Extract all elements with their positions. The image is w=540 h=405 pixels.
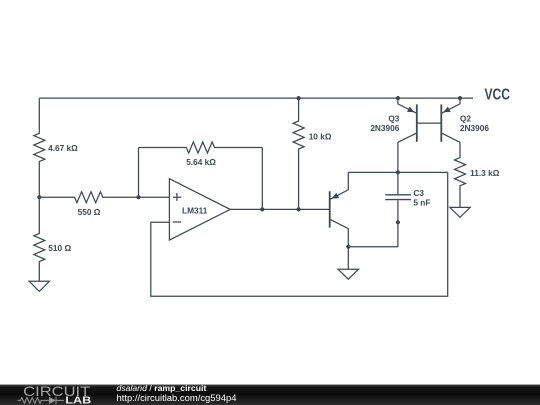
transistor Q1 emitter: [330, 172, 349, 199]
op-amp minus: [173, 221, 182, 223]
resistor R 550: [39, 192, 138, 203]
resistor R 510: [34, 197, 45, 281]
svg-text:C3: C3: [413, 188, 424, 198]
svg-text:LM311: LM311: [182, 205, 208, 215]
node H: [458, 96, 462, 100]
svg-text:Q2: Q2: [460, 113, 471, 123]
wire feedback right vertical: [261, 148, 263, 210]
node C: [260, 207, 264, 211]
svg-text:Q3: Q3: [388, 113, 399, 123]
capacitor C3 bottom lead: [397, 200, 399, 246]
transistor Q1 collector: [330, 219, 349, 247]
op-amp U1 LM311 triangle: [169, 179, 230, 240]
svg-text:5.64 kΩ: 5.64 kΩ: [186, 157, 216, 167]
transistor Q2 arrow: [443, 107, 450, 113]
wire output: [230, 208, 330, 210]
transistor Q3 arrow: [407, 107, 414, 113]
svg-text:LAB: LAB: [65, 396, 91, 405]
capacitor C3 plates: [385, 195, 411, 200]
node I: [396, 170, 400, 174]
resistor R 5.64k: [139, 142, 263, 153]
svg-text:2N3906: 2N3906: [460, 123, 489, 133]
wire VCC top rail: [39, 97, 473, 99]
transistor Q1 arrow: [332, 193, 340, 199]
logo resistor squiggle: [18, 397, 65, 404]
svg-text:550 Ω: 550 Ω: [78, 207, 101, 217]
transistor Q2 collector: [441, 133, 460, 142]
node B: [136, 195, 140, 199]
svg-text:10 kΩ: 10 kΩ: [309, 131, 332, 141]
ground G2: [338, 269, 358, 279]
node E: [297, 207, 301, 211]
node D: [297, 96, 301, 100]
capacitor C3 top lead: [397, 142, 399, 194]
node J: [396, 220, 400, 224]
transistor Q3 bar: [416, 104, 418, 141]
wire feedback left vertical: [138, 148, 140, 198]
resistor R 10k: [293, 98, 304, 209]
wire +input: [139, 196, 170, 198]
svg-text:510 Ω: 510 Ω: [48, 243, 71, 253]
logo diode: [49, 397, 56, 404]
node F: [346, 245, 350, 249]
transistor Q3 collector: [398, 133, 417, 142]
op-amp plus: [173, 193, 181, 201]
wire bottom cap: [348, 246, 398, 248]
wire base link: [417, 122, 442, 124]
svg-text:11.3 kΩ: 11.3 kΩ: [470, 168, 500, 178]
svg-text:VCC: VCC: [485, 87, 511, 104]
svg-text:5 nF: 5 nF: [413, 198, 430, 208]
transistor Q1 bar: [329, 191, 331, 227]
svg-text:2N3906: 2N3906: [370, 123, 399, 133]
wire -input bottom loop: [151, 172, 448, 296]
node A: [37, 195, 41, 199]
wire emitter horizontal: [348, 171, 447, 173]
svg-text:4.67 kΩ: 4.67 kΩ: [48, 143, 78, 153]
resistor R 4.67k: [34, 98, 45, 197]
resistor R 11.3k: [455, 142, 466, 207]
wire ground stem mid: [347, 247, 349, 270]
transistor Q2 emitter: [441, 98, 460, 113]
transistor Q2 bar: [440, 104, 442, 141]
transistor Q3 emitter: [398, 98, 417, 113]
ground G1: [29, 281, 49, 291]
node G: [396, 96, 400, 100]
svg-text:http://circuitlab.com/cg594p4: http://circuitlab.com/cg594p4: [117, 392, 237, 403]
ground G3: [450, 207, 470, 217]
